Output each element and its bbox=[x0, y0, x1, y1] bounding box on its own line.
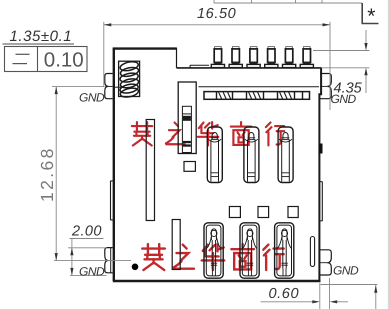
svg-text:1.35±0.1: 1.35±0.1 bbox=[10, 28, 73, 45]
svg-text:GND: GND bbox=[79, 90, 105, 104]
svg-text:16.50: 16.50 bbox=[197, 6, 236, 22]
svg-text:GND: GND bbox=[333, 264, 359, 278]
svg-text:0.60: 0.60 bbox=[269, 286, 300, 302]
svg-text:0.10: 0.10 bbox=[44, 48, 84, 71]
svg-text:GND: GND bbox=[79, 265, 105, 279]
svg-text:GND: GND bbox=[331, 92, 357, 106]
svg-text:12.68: 12.68 bbox=[37, 146, 57, 202]
svg-text:*: * bbox=[367, 5, 375, 28]
svg-text:2.00: 2.00 bbox=[71, 224, 102, 240]
